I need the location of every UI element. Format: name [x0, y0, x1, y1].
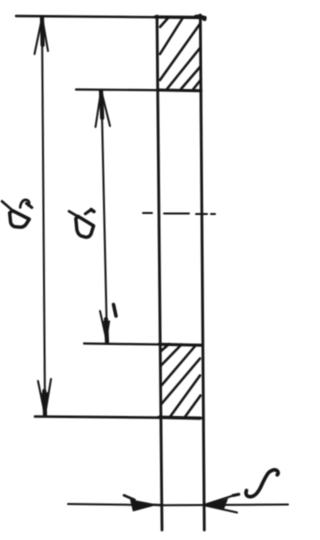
- washer outline top edge: [155, 15, 205, 19]
- centerline dash-dot: [143, 213, 215, 214]
- d1 upper extension line: [76, 90, 201, 91]
- arrow S left (filled): [131, 500, 155, 510]
- label S lead-in tick: [233, 494, 239, 495]
- arrow S left tip link to edge: [154, 504, 162, 507]
- arrow d1 top: [96, 91, 111, 127]
- hatch bottom region lower boundary (bold): [159, 416, 200, 420]
- arrow d1 bottom: [100, 305, 116, 343]
- hatch bottom region upper boundary (bold): [159, 344, 201, 345]
- hatch top region: [160, 18, 201, 90]
- d2 upper extension line: [16, 16, 157, 17]
- dimension line S middle segment: [161, 504, 206, 506]
- d1 lower extension line: [84, 344, 201, 346]
- arrow S left back flick: [124, 495, 135, 500]
- label d1: [69, 209, 94, 237]
- dimension line d1: [102, 93, 108, 340]
- arrow S right: [206, 495, 238, 513]
- dimension line S right segment: [206, 504, 288, 507]
- label d2: [2, 200, 32, 227]
- hatch bottom region: [161, 344, 201, 418]
- hatch top region lower boundary (bold): [158, 89, 201, 93]
- dimension line d2: [42, 20, 45, 413]
- arrow d2 top: [35, 18, 49, 54]
- washer outline left edge: [157, 16, 162, 530]
- washer outline right edge: [200, 15, 204, 530]
- label S: [246, 470, 278, 497]
- dimension line S left segment: [68, 504, 148, 505]
- d2 lower extension line: [35, 417, 201, 419]
- washer outline top right corner (bold): [196, 17, 205, 19]
- arrow d2 bottom: [38, 379, 51, 415]
